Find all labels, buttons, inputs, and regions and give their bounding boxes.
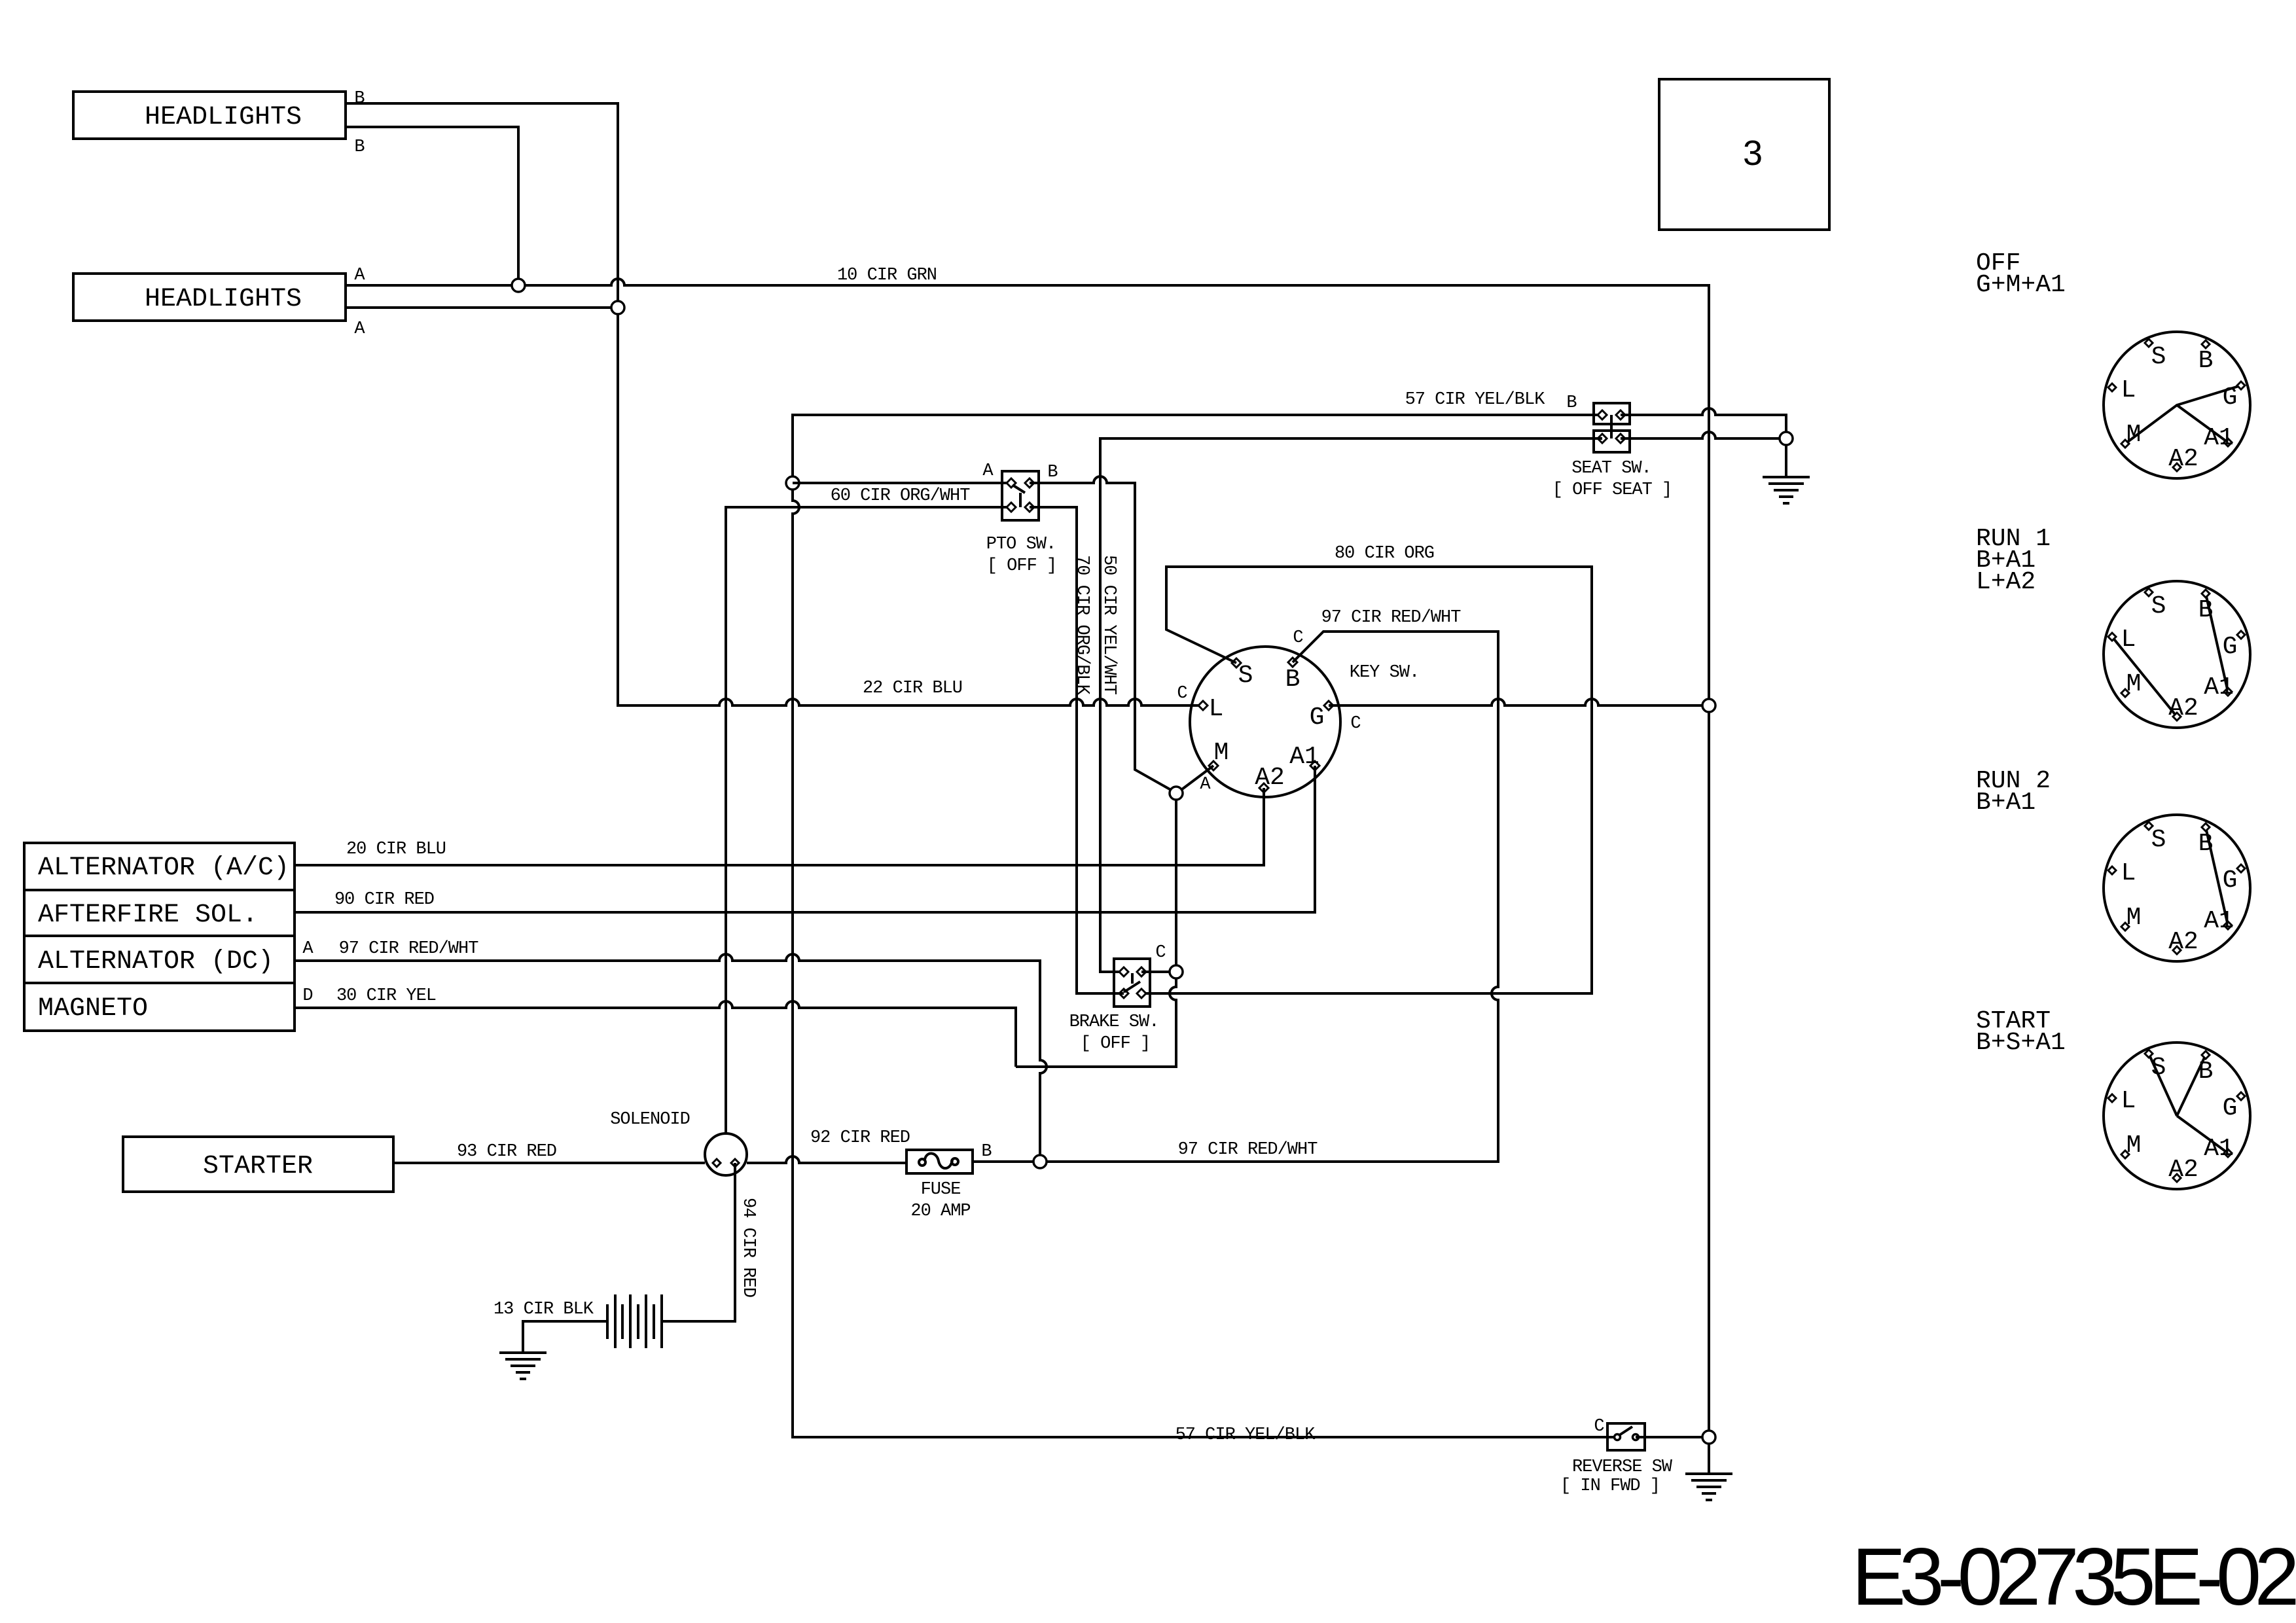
solenoid pin left: [713, 1159, 721, 1167]
wire 60 CIR ORG/WHT lower: [726, 507, 1011, 1134]
svg-text:A1: A1: [2204, 424, 2234, 452]
svg-text:G: G: [2223, 383, 2238, 412]
svg-text:M: M: [2126, 670, 2142, 698]
svg-text:C: C: [1293, 628, 1303, 648]
svg-text:22 CIR BLU: 22 CIR BLU: [863, 679, 962, 698]
wire 92 CIR RED: [747, 1156, 906, 1163]
seat switch pin lower right: [1616, 434, 1625, 443]
svg-text:L: L: [2121, 1087, 2136, 1115]
svg-text:[ OFF ]: [ OFF ]: [987, 556, 1056, 576]
wire 30 CIR YEL: [295, 1001, 1016, 1067]
seat switch pin right upper: [1616, 410, 1625, 419]
svg-text:B: B: [981, 1142, 992, 1162]
svg-text:10 CIR GRN: 10 CIR GRN: [837, 266, 937, 285]
svg-text:A2: A2: [1255, 764, 1285, 792]
svg-text:L+A2: L+A2: [1976, 568, 2036, 596]
wire node A down to node C and 30 CIR YEL: [1016, 800, 1176, 1067]
svg-text:STARTER: STARTER: [203, 1152, 313, 1181]
svg-text:B: B: [354, 137, 365, 157]
svg-text:SOLENOID: SOLENOID: [610, 1110, 690, 1130]
svg-text:[ IN FWD ]: [ IN FWD ]: [1560, 1476, 1660, 1496]
wire 10 CIR GRN: [346, 279, 1709, 1437]
svg-text:B: B: [354, 89, 365, 109]
PTO switch box: [1002, 471, 1039, 520]
svg-text:B: B: [1047, 463, 1058, 482]
wire 97 CIR RED/WHT from alternator DC: [295, 954, 1047, 1154]
wire 93 CIR RED: [393, 1162, 705, 1164]
svg-text:A: A: [302, 939, 314, 959]
wire 57 CIR YEL/BLK top run: [793, 415, 1602, 483]
headlights box 1: [73, 92, 346, 139]
svg-text:A1: A1: [2204, 1135, 2234, 1163]
brake pin top left: [1119, 967, 1128, 976]
svg-text:70 CIR ORG/BLK: 70 CIR ORG/BLK: [1072, 555, 1092, 696]
wire headlight2 pin A bottom to node: [346, 306, 618, 309]
ground seat switch: [1763, 477, 1810, 503]
svg-text:FUSE: FUSE: [921, 1180, 961, 1200]
wire 22 CIR BLU from key G to node: [1329, 699, 1702, 705]
svg-text:B+S+A1: B+S+A1: [1976, 1029, 2066, 1057]
svg-text:B: B: [1566, 393, 1577, 413]
svg-text:A: A: [982, 461, 994, 481]
svg-text:B: B: [2198, 347, 2214, 375]
svg-text:ALTERNATOR (DC): ALTERNATOR (DC): [38, 947, 274, 976]
svg-text:13 CIR BLK: 13 CIR BLK: [493, 1300, 594, 1319]
key position RUN 1 label: [1976, 525, 2051, 596]
key terminal A2: [1259, 783, 1268, 793]
svg-text:S: S: [2151, 343, 2166, 371]
svg-text:MAGNETO: MAGNETO: [38, 994, 148, 1024]
svg-text:90 CIR RED: 90 CIR RED: [334, 890, 434, 910]
svg-text:C: C: [1155, 943, 1166, 963]
PTO pin A top: [1007, 478, 1016, 488]
svg-text:M: M: [2126, 904, 2142, 932]
svg-text:A: A: [354, 266, 365, 285]
solenoid circle: [705, 1133, 747, 1175]
magneto box: [24, 983, 295, 1031]
fuse element: [919, 1153, 958, 1168]
key switch circle: [1190, 647, 1340, 797]
svg-text:A1: A1: [2204, 673, 2234, 702]
wire fuse to node: [973, 1160, 1033, 1163]
svg-text:B: B: [2198, 830, 2214, 858]
svg-text:A2: A2: [2168, 1156, 2198, 1184]
wire headlight1 pin B bottom to node: [346, 127, 518, 285]
svg-text:60 CIR ORG/WHT: 60 CIR ORG/WHT: [831, 486, 971, 506]
starter box: [123, 1137, 393, 1192]
battery: [607, 1294, 662, 1348]
svg-text:30 CIR YEL: 30 CIR YEL: [336, 986, 436, 1006]
svg-text:B: B: [1285, 666, 1300, 694]
svg-text:HEADLIGHTS: HEADLIGHTS: [145, 285, 302, 314]
key terminal G: [1324, 701, 1333, 710]
brake pin bottom right: [1137, 989, 1146, 998]
key terminal L: [1198, 701, 1208, 710]
ground reverse switch: [1685, 1474, 1732, 1500]
reverse pin left: [1615, 1435, 1621, 1440]
wire reverse to ground node: [1636, 1436, 1702, 1438]
PTO switch blade: [1013, 485, 1025, 507]
PTO pin B top: [1025, 478, 1034, 488]
svg-text:D: D: [302, 986, 312, 1006]
seat switch box lower: [1594, 431, 1630, 452]
svg-text:20 AMP: 20 AMP: [910, 1202, 970, 1221]
key position RUN 1: [2104, 581, 2250, 728]
svg-text:C: C: [1594, 1417, 1604, 1436]
svg-text:L: L: [2121, 626, 2136, 654]
key terminal M: [1209, 761, 1218, 770]
svg-text:A: A: [354, 319, 365, 339]
svg-text:[ OFF SEAT ]: [ OFF SEAT ]: [1552, 480, 1672, 500]
key position RUN 2 label: [1976, 767, 2051, 817]
svg-text:3: 3: [1743, 134, 1763, 173]
svg-text:B: B: [2198, 596, 2214, 624]
seat switch pin B left: [1598, 410, 1607, 419]
seat switch box upper: [1594, 403, 1630, 424]
wire 70 CIR ORG/BLK to brake bottom left: [1030, 507, 1124, 993]
svg-text:M: M: [2126, 1132, 2142, 1160]
svg-text:A2: A2: [2168, 694, 2198, 722]
svg-text:E3-02735E-02: E3-02735E-02: [1852, 1532, 2295, 1622]
svg-text:M: M: [1214, 739, 1229, 767]
svg-text:PTO SW.: PTO SW.: [986, 535, 1056, 554]
svg-text:L: L: [2121, 376, 2136, 404]
solenoid pin right: [731, 1159, 739, 1167]
svg-text:S: S: [1238, 662, 1253, 690]
svg-text:94 CIR RED: 94 CIR RED: [738, 1198, 758, 1297]
afterfire sol. box: [24, 890, 295, 936]
svg-text:97 CIR RED/WHT: 97 CIR RED/WHT: [1321, 608, 1462, 628]
brake pin top right: [1137, 967, 1146, 976]
alternator (DC) box: [24, 936, 295, 983]
node G line to vertical: [1702, 699, 1715, 712]
svg-text:KEY SW.: KEY SW.: [1350, 663, 1419, 683]
svg-text:20 CIR BLU: 20 CIR BLU: [346, 840, 446, 859]
brake pin bottom left: [1119, 989, 1128, 998]
svg-text:A: A: [1200, 775, 1211, 794]
wire 90 CIR RED: [295, 766, 1315, 912]
svg-text:L: L: [1209, 695, 1224, 723]
wire 97 CIR RED/WHT from key B: [1047, 632, 1498, 1162]
node A: [1170, 787, 1183, 800]
key position RUN 2: [2104, 815, 2250, 961]
ground battery: [499, 1353, 547, 1379]
key position START: [2104, 1043, 2250, 1189]
brake switch blade: [1124, 973, 1140, 992]
wire seat switch lower left 50 CIR YEL/WHT: [1100, 438, 1602, 972]
node junction headlights B/GRN: [512, 279, 525, 292]
svg-text:93 CIR RED: 93 CIR RED: [457, 1142, 556, 1162]
key position OFF label: [1976, 249, 2066, 299]
wire seat ground drop: [1785, 446, 1787, 477]
wire reverse ground drop: [1708, 1444, 1710, 1474]
wire vertical 1211 down to reverse switch: [793, 483, 1617, 1437]
svg-text:G: G: [2223, 1094, 2238, 1122]
seat switch middle link: [1610, 415, 1613, 438]
wire headlight1 pin B top to vertical x944 down to 22 CIR BLU: [346, 103, 1203, 705]
key terminal S: [1232, 658, 1241, 668]
wire seat switch upper right to ground node: [1621, 408, 1786, 438]
key terminal B: [1288, 658, 1297, 667]
svg-text:M: M: [2126, 421, 2142, 449]
svg-text:REVERSE SW: REVERSE SW: [1572, 1457, 1673, 1477]
wire key M to node A: [1182, 766, 1213, 789]
wire 94 CIR RED: [662, 1163, 735, 1321]
svg-text:SEAT SW.: SEAT SW.: [1571, 459, 1651, 478]
svg-text:A2: A2: [2168, 445, 2198, 473]
svg-text:C: C: [1177, 684, 1187, 704]
reverse switch box: [1607, 1423, 1645, 1450]
node 97/92 junction: [1033, 1155, 1047, 1168]
svg-text:97 CIR RED/WHT: 97 CIR RED/WHT: [1178, 1140, 1318, 1160]
svg-text:G: G: [2223, 866, 2238, 895]
svg-text:ALTERNATOR (A/C): ALTERNATOR (A/C): [38, 853, 289, 883]
svg-text:BRAKE SW.: BRAKE SW.: [1069, 1012, 1159, 1032]
node C: [1170, 965, 1183, 978]
wire 20 CIR BLU: [295, 788, 1264, 865]
reverse switch blade: [1619, 1427, 1632, 1435]
svg-text:A1: A1: [2204, 907, 2234, 935]
svg-text:57 CIR YEL/BLK: 57 CIR YEL/BLK: [1405, 390, 1546, 410]
wire seat switch lower right to ground node: [1621, 432, 1779, 438]
svg-text:S: S: [2151, 1054, 2166, 1082]
PTO pin bottom left: [1007, 503, 1016, 512]
key position START label: [1976, 1007, 2066, 1057]
svg-text:AFTERFIRE SOL.: AFTERFIRE SOL.: [38, 901, 258, 930]
svg-text:[ OFF ]: [ OFF ]: [1081, 1034, 1150, 1054]
svg-text:G: G: [1310, 704, 1325, 732]
svg-text:HEADLIGHTS: HEADLIGHTS: [145, 103, 302, 132]
key position OFF: [2104, 332, 2250, 478]
wire 80 CIR ORG: [1141, 567, 1592, 993]
wire 60 CIR ORG/WHT upper: [793, 482, 1011, 484]
svg-text:92 CIR RED: 92 CIR RED: [810, 1128, 910, 1148]
key terminal A1: [1310, 761, 1319, 770]
svg-text:G+M+A1: G+M+A1: [1976, 271, 2066, 299]
svg-text:S: S: [2151, 826, 2166, 854]
svg-text:S: S: [2151, 592, 2166, 620]
svg-text:57 CIR YEL/BLK: 57 CIR YEL/BLK: [1175, 1425, 1316, 1445]
headlights box 2: [73, 274, 346, 321]
svg-text:B+A1: B+A1: [1976, 789, 2036, 817]
svg-text:A2: A2: [2168, 928, 2198, 956]
node junction headlights A/B: [611, 301, 624, 314]
svg-text:50 CIR YEL/WHT: 50 CIR YEL/WHT: [1099, 555, 1119, 695]
svg-text:B: B: [2198, 1058, 2214, 1086]
page number box: [1659, 79, 1829, 230]
wire PTO B to vertical 1734 down to node A: [1030, 476, 1171, 790]
brake switch box: [1114, 959, 1150, 1007]
wire brake top right to node C: [1141, 971, 1170, 973]
node reverse ground junction: [1702, 1431, 1715, 1444]
seat switch pin lower left: [1598, 434, 1607, 443]
wire 13 CIR BLK: [523, 1321, 607, 1353]
PTO pin bottom right: [1025, 503, 1034, 512]
svg-text:C: C: [1350, 714, 1361, 734]
svg-text:L: L: [2121, 859, 2136, 887]
svg-text:80 CIR ORG: 80 CIR ORG: [1335, 544, 1434, 563]
reverse pin right: [1633, 1435, 1639, 1440]
svg-text:97 CIR RED/WHT: 97 CIR RED/WHT: [339, 939, 479, 959]
svg-text:G: G: [2223, 633, 2238, 661]
fuse box: [906, 1150, 973, 1173]
alternator (A/C) box: [24, 843, 295, 890]
node junction 60 CIR ORG/WHT: [786, 476, 799, 490]
node seat ground junction: [1780, 432, 1793, 445]
